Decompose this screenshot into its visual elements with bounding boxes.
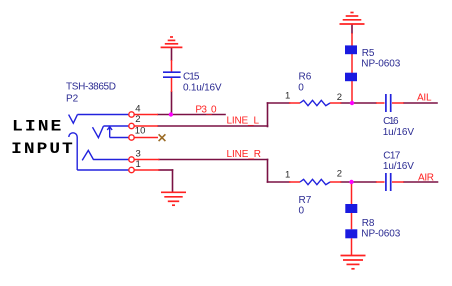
- svg-text:10: 10: [135, 126, 146, 137]
- svg-text:0: 0: [298, 82, 304, 93]
- svg-text:R5: R5: [362, 48, 375, 59]
- svg-text:1u/16V: 1u/16V: [383, 161, 414, 172]
- svg-text:LINE_L: LINE_L: [227, 116, 260, 127]
- svg-text:R6: R6: [299, 72, 312, 83]
- svg-text:4: 4: [135, 104, 140, 115]
- svg-text:0.1u/16V: 0.1u/16V: [183, 83, 222, 94]
- svg-text:2: 2: [135, 114, 140, 125]
- svg-text:1: 1: [285, 90, 290, 101]
- svg-text:1: 1: [285, 169, 290, 180]
- svg-text:1u/16V: 1u/16V: [383, 127, 415, 138]
- svg-text:C16: C16: [383, 116, 399, 127]
- svg-text:2: 2: [337, 169, 342, 180]
- svg-text:R8: R8: [362, 218, 375, 229]
- svg-text:NP-0603: NP-0603: [361, 229, 400, 240]
- svg-text:P3_0: P3_0: [195, 104, 217, 115]
- svg-text:TSH-3865D: TSH-3865D: [66, 82, 116, 93]
- svg-text:LINE_R: LINE_R: [227, 149, 262, 160]
- svg-text:AIL: AIL: [417, 93, 432, 104]
- svg-text:AIR: AIR: [418, 173, 434, 184]
- svg-text:NP-0603: NP-0603: [361, 59, 400, 70]
- svg-text:LINE: LINE: [12, 118, 63, 136]
- svg-text:C15: C15: [183, 71, 200, 82]
- svg-text:3: 3: [136, 148, 141, 159]
- svg-text:P2: P2: [66, 94, 79, 105]
- svg-text:C17: C17: [383, 151, 400, 162]
- svg-text:0: 0: [299, 206, 305, 217]
- svg-text:1: 1: [136, 159, 141, 170]
- svg-text:2: 2: [337, 92, 342, 103]
- svg-text:INPUT: INPUT: [11, 140, 75, 158]
